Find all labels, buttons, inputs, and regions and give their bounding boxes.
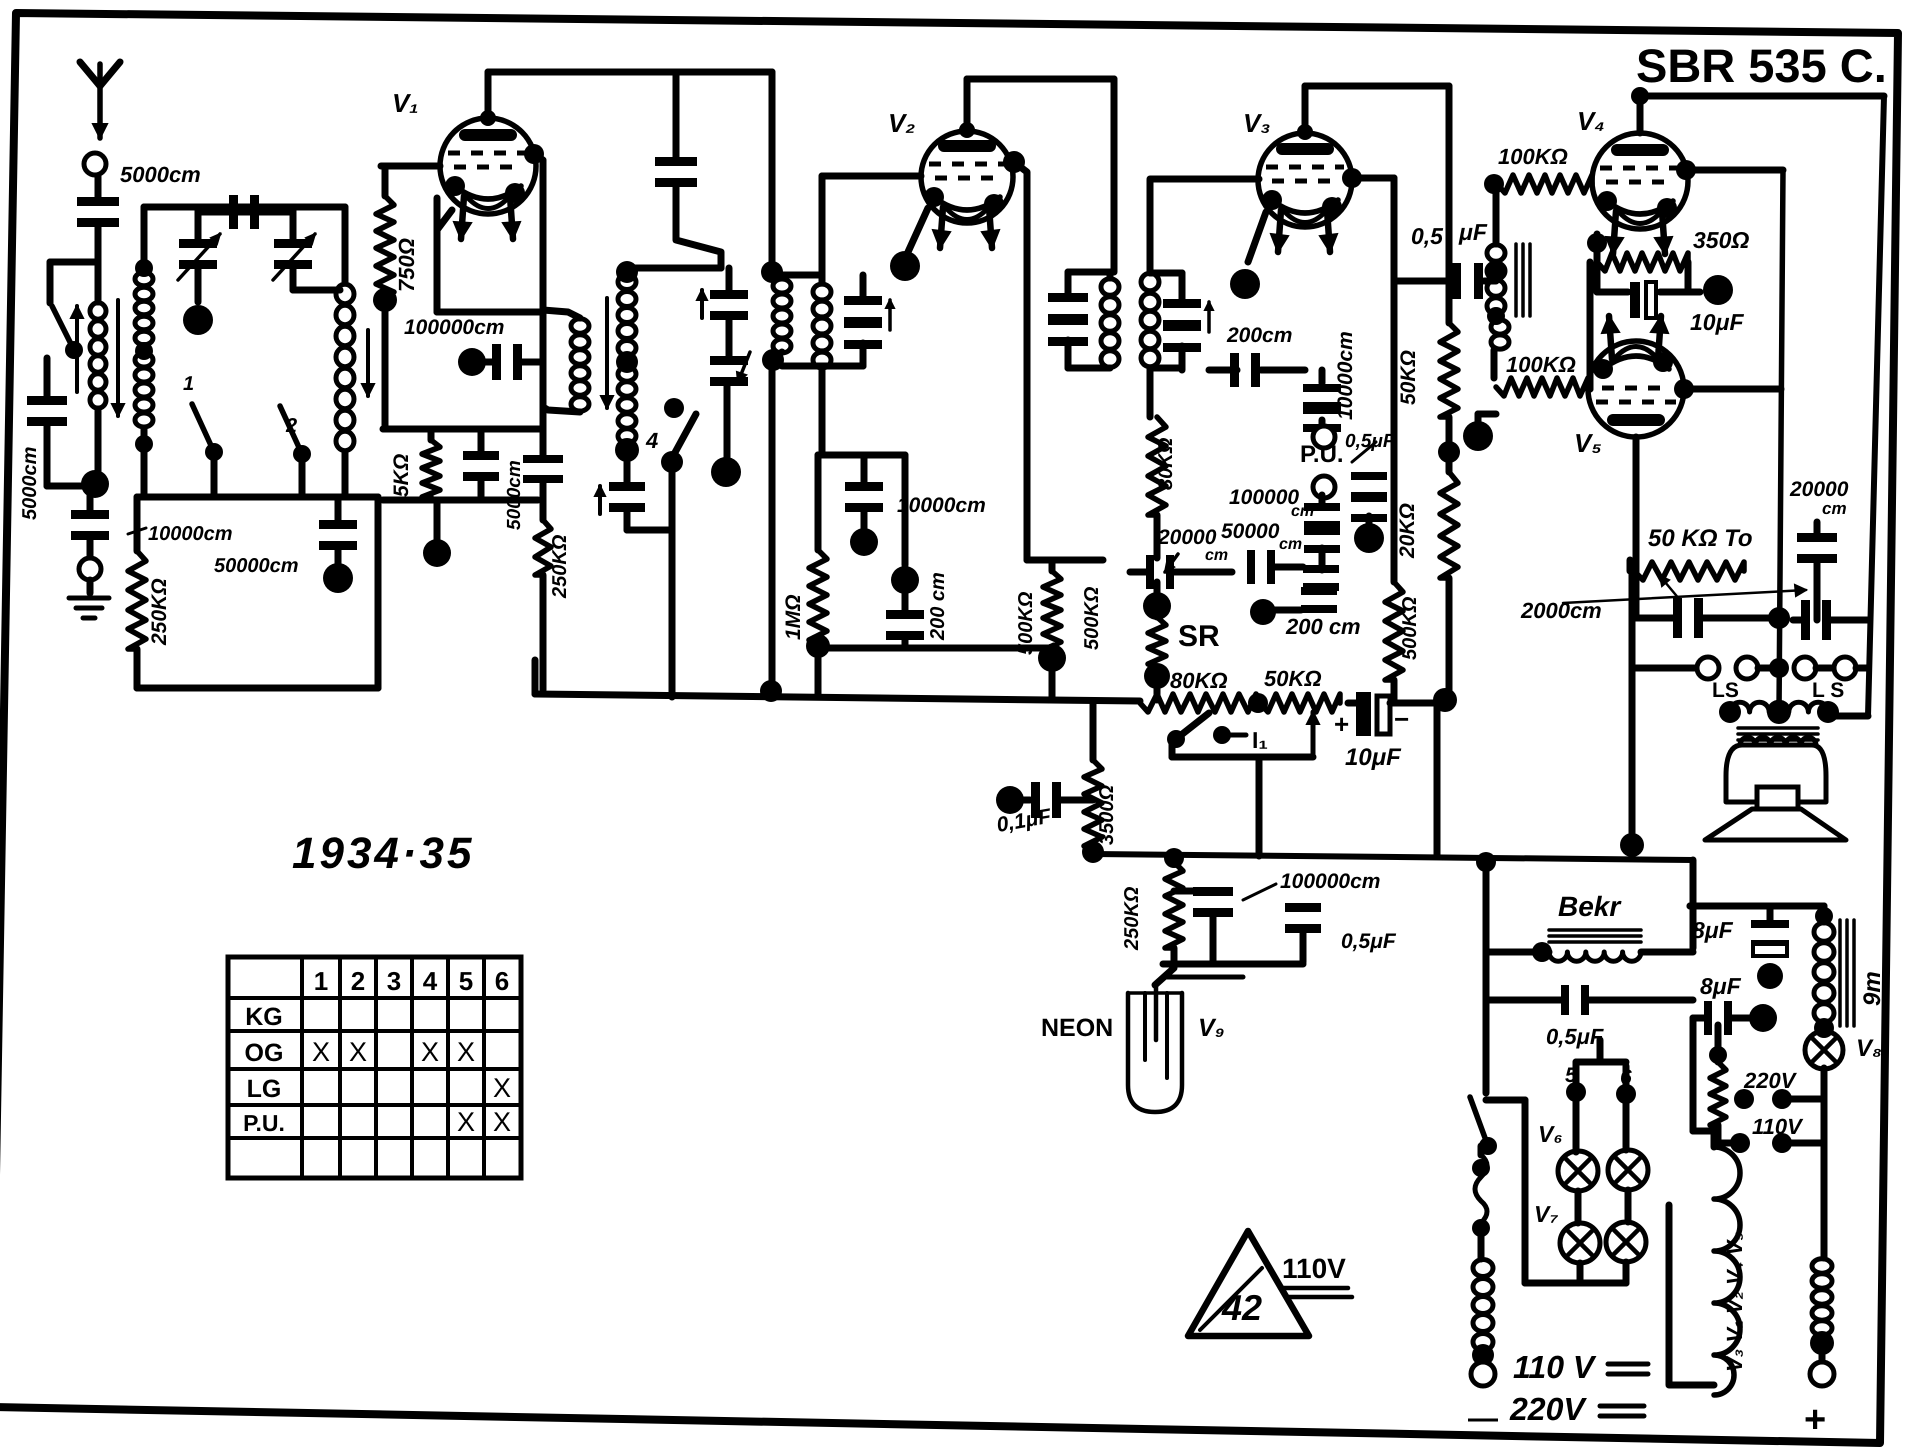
arrow up: [75, 306, 79, 392]
svg-text:0,5μF: 0,5μF: [1345, 431, 1396, 452]
svg-text:200 cm: 200 cm: [927, 572, 949, 641]
capacitor top: [198, 209, 293, 216]
svg-text:3: 3: [387, 966, 401, 996]
wire: [44, 425, 51, 486]
node 220: [1734, 1089, 1754, 1109]
svg-text:200 cm: 200 cm: [1285, 614, 1361, 639]
wire: [1718, 1125, 1740, 1143]
svg-text:5: 5: [459, 966, 473, 996]
svg-text:KG: KG: [245, 1003, 283, 1031]
capacitor 50000cm: [1304, 527, 1340, 535]
svg-text:80KΩ: 80KΩ: [1170, 668, 1228, 693]
wire top rail: [144, 204, 345, 211]
svg-text:0,5μF: 0,5μF: [1341, 930, 1397, 953]
coil L1 upper: [141, 207, 148, 272]
svg-text:1MΩ: 1MΩ: [782, 594, 805, 640]
arrow down: [605, 298, 609, 408]
triangle 42: [1188, 1231, 1309, 1336]
arrow: [888, 300, 892, 330]
node 6: [1616, 1084, 1636, 1104]
resistor 350: [1587, 233, 1607, 253]
svg-text:X: X: [493, 1073, 511, 1103]
wire bottom rail: [137, 494, 378, 501]
tube V2: [921, 131, 1013, 223]
node: [1487, 263, 1505, 281]
wire: [1434, 703, 1441, 855]
svg-text:V₁: V₁: [392, 88, 419, 118]
svg-text:P.U.: P.U.: [1300, 441, 1344, 468]
blob: [458, 348, 486, 376]
blob 0.1uF: [996, 786, 1024, 814]
lamp V7b: [1625, 1190, 1632, 1222]
wire: [1305, 83, 1449, 90]
fuse: [1475, 1155, 1487, 1223]
svg-text:V₂: V₂: [888, 108, 915, 138]
wire V5 plate: [1633, 437, 1640, 617]
node: [1433, 688, 1457, 712]
capacitor 200cm: [902, 455, 909, 565]
speaker coil box: [1726, 745, 1826, 802]
lamp V7a: [1575, 1191, 1582, 1223]
svg-text:V₈: V₈: [1856, 1035, 1882, 1062]
svg-text:V₄: V₄: [1577, 106, 1605, 136]
wire: [95, 176, 102, 200]
svg-text:cm: cm: [1205, 547, 1228, 564]
transformer 9m: [1690, 903, 1824, 910]
wire neon top: [1155, 948, 1174, 985]
tube V5: [1588, 341, 1684, 437]
wire power bus: [1093, 854, 1693, 860]
svg-text:OG: OG: [245, 1039, 284, 1067]
svg-text:100KΩ: 100KΩ: [1498, 144, 1568, 169]
svg-text:X: X: [493, 1107, 511, 1137]
capacitor IFT2 a: [1048, 293, 1088, 302]
svg-text:500KΩ: 500KΩ: [1015, 591, 1037, 655]
svg-text:1: 1: [183, 373, 194, 395]
wire: [1352, 175, 1394, 182]
capacitor pair: [1303, 565, 1339, 573]
svg-text:20000: 20000: [1157, 526, 1217, 549]
capacitor h2: [1247, 550, 1255, 584]
terminal minus: [1480, 1355, 1487, 1362]
resistor 500K a: [1027, 557, 1103, 564]
blob cathode V2: [890, 251, 920, 281]
capacitor 100000cm: [1304, 503, 1340, 511]
svg-text:SBR 535 C.: SBR 535 C.: [1636, 39, 1887, 92]
junction: [1082, 841, 1104, 863]
coil out plus: [1812, 1259, 1832, 1273]
capacitor 20000cm: [1797, 533, 1837, 542]
capacitor SR: [1146, 555, 1154, 589]
blob: [1475, 414, 1482, 424]
svg-text:100000cm: 100000cm: [404, 316, 504, 339]
svg-text:5KΩ: 5KΩ: [390, 454, 413, 497]
coil L1 lower: [135, 353, 153, 367]
wave table: [228, 957, 521, 1178]
wire V4 right: [1676, 160, 1696, 180]
blob: [434, 500, 441, 542]
resistor 80K pot: [1140, 694, 1256, 712]
resistor 50K pot: [1260, 694, 1340, 712]
resistor 250K: [134, 497, 141, 551]
junction blob: [1038, 644, 1066, 672]
wire: [1483, 862, 1490, 1093]
svg-text:10μF: 10μF: [1345, 744, 1402, 771]
trimmer cap A: [726, 268, 733, 291]
capacitor 0.1uF: [1031, 782, 1040, 818]
svg-text:NEON: NEON: [1041, 1014, 1113, 1042]
wire: [290, 268, 297, 290]
resistor 250K v1: [540, 483, 547, 520]
capacitor 0.5uF b: [1285, 903, 1321, 912]
node: [1768, 607, 1790, 629]
svg-text:cm: cm: [1822, 499, 1847, 518]
pointer: [1563, 590, 1806, 603]
svg-text:500KΩ: 500KΩ: [1081, 586, 1103, 650]
switch 1: [192, 404, 214, 452]
capacitor 50000cm: [335, 497, 342, 521]
wire: [902, 637, 909, 648]
wire: [1491, 350, 1498, 378]
junction: [373, 288, 397, 312]
lamp V6a: [1573, 1092, 1580, 1152]
coil osc A: [543, 310, 580, 318]
wire: [1576, 1059, 1626, 1066]
terminal LS2: [1736, 657, 1758, 679]
svg-text:I₁: I₁: [1252, 727, 1268, 753]
svg-text:100KΩ: 100KΩ: [1506, 352, 1576, 377]
svg-text:500KΩ: 500KΩ: [1399, 596, 1421, 660]
svg-text:100000: 100000: [1229, 486, 1299, 509]
capacitor 8uF b: [1704, 1001, 1712, 1035]
svg-text:4: 4: [645, 428, 658, 453]
svg-text:110V: 110V: [1282, 1253, 1346, 1284]
wire: [1446, 578, 1453, 703]
wire V1 grid line: [534, 154, 543, 455]
wire V5 left: [1587, 262, 1594, 389]
neon V9: [1128, 993, 1182, 1112]
capacitor 0.5 ps: [1561, 985, 1569, 1015]
svg-text:L S: L S: [1812, 679, 1844, 702]
svg-text:X: X: [421, 1037, 439, 1067]
tube V4: [1592, 133, 1688, 229]
svg-text:42: 42: [1221, 1287, 1262, 1328]
core: [1738, 726, 1818, 730]
svg-text:V₃: V₃: [1243, 108, 1270, 138]
resistor 5K: [428, 429, 435, 440]
junction blob: [195, 268, 202, 302]
svg-text:220V: 220V: [1509, 1391, 1587, 1427]
svg-text:5000cm: 5000cm: [19, 447, 41, 520]
wire: [1629, 565, 1636, 845]
wire: [1446, 417, 1453, 446]
coil IFT1 pri: [761, 261, 783, 283]
svg-text:2: 2: [285, 415, 297, 437]
wire: [50, 259, 98, 266]
svg-text:3500Ω: 3500Ω: [1096, 785, 1118, 845]
wire: [532, 660, 539, 694]
capacitor 100000 b: [1193, 887, 1233, 896]
svg-text:P.U.: P.U.: [243, 1110, 285, 1136]
svg-text:50000cm: 50000cm: [214, 555, 299, 577]
arrow down: [116, 300, 120, 416]
svg-text:110 V: 110 V: [1513, 1349, 1597, 1385]
node: [1631, 87, 1649, 105]
coil ant primary: [95, 262, 102, 302]
wire: [1690, 1018, 1697, 1131]
arrow wiper: [1311, 712, 1316, 755]
svg-text:V₇: V₇: [1534, 1201, 1558, 1227]
capacitor ant 5000cm: [77, 197, 119, 206]
svg-text:μF: μF: [1458, 219, 1488, 245]
wire: [1486, 1097, 1525, 1104]
coil IFT2 sec: [1141, 273, 1159, 290]
capacitor padder: [624, 450, 631, 482]
svg-text:10μF: 10μF: [1690, 309, 1744, 335]
capacitor 10uF: [1356, 692, 1371, 736]
tube V3: [1258, 133, 1352, 227]
wire: [1154, 582, 1161, 600]
svg-text:V₅: V₅: [1574, 428, 1602, 458]
terminal antenna: [84, 153, 106, 175]
svg-text:250KΩ: 250KΩ: [1121, 886, 1143, 951]
capacitor IFT2 b: [1163, 299, 1201, 308]
node I1: [1213, 726, 1231, 744]
wire: [1711, 1131, 1718, 1147]
svg-text:250KΩ: 250KΩ: [549, 534, 571, 599]
capacitor 2000 a: [1673, 598, 1682, 638]
wire: [1154, 515, 1161, 558]
trimmer cap 2: [290, 207, 297, 240]
resistor 500K c: [1391, 281, 1398, 582]
switch I1: [1176, 713, 1209, 739]
blob cathode V3: [1230, 269, 1260, 299]
resistor 750ohm: [381, 163, 440, 170]
svg-text:250KΩ: 250KΩ: [148, 578, 171, 646]
wire: [44, 358, 51, 397]
coil IFT1 sec: [813, 284, 831, 300]
wire top link: [627, 265, 721, 272]
wire: [1486, 949, 1549, 956]
svg-text:5000cm: 5000cm: [504, 460, 525, 530]
wire grid V2: [822, 173, 921, 180]
wire: [1832, 713, 1868, 720]
capacitor 5000cm left: [27, 396, 67, 405]
node tap: [135, 259, 153, 277]
trimmer cap 1: [195, 207, 202, 240]
terminal LS4: [1834, 657, 1856, 679]
svg-text:+: +: [1804, 1399, 1826, 1441]
wire: [967, 76, 1114, 83]
wire bracket: [1669, 1205, 1714, 1385]
output transformer primary: [1719, 701, 1741, 723]
wire: [673, 72, 680, 158]
node grid cap: [524, 144, 544, 164]
svg-text:10000cm: 10000cm: [148, 523, 233, 545]
pot 50K: [1627, 560, 1634, 571]
junction blob: [335, 549, 342, 566]
wire: [815, 646, 822, 697]
svg-text:5000cm: 5000cm: [120, 162, 201, 187]
blob: [861, 511, 868, 528]
coil osc B: [616, 261, 638, 283]
svg-text:Bekr: Bekr: [1558, 891, 1622, 922]
capacitor 5000cm v1: [523, 455, 563, 463]
wire: [1150, 270, 1182, 277]
svg-text:X: X: [457, 1037, 475, 1067]
wire inner vert: [1779, 170, 1783, 712]
terminal PU2: [1313, 476, 1335, 498]
wire: [1179, 352, 1186, 370]
wire top bus: [488, 69, 772, 76]
svg-text:X: X: [349, 1037, 367, 1067]
svg-text:LS: LS: [1712, 679, 1739, 702]
speaker: [1757, 787, 1798, 809]
svg-text:V₉: V₉: [1198, 1014, 1225, 1042]
svg-text:9m: 9m: [1859, 971, 1886, 1006]
junction: [806, 634, 830, 658]
lamp V8: [1814, 1018, 1834, 1038]
resistor 80K: [1147, 368, 1154, 417]
node: [1810, 1331, 1834, 1355]
svg-text:20000: 20000: [1789, 478, 1849, 501]
svg-text:cm: cm: [1279, 536, 1302, 553]
wire B+ top: [1640, 93, 1884, 100]
node: [1248, 693, 1268, 713]
svg-text:X: X: [457, 1107, 475, 1137]
svg-text:100000cm: 100000cm: [1280, 870, 1380, 893]
blob: [1366, 516, 1373, 524]
capacitor: [478, 429, 485, 452]
choke Bekr: [1549, 928, 1641, 932]
resistor 20K: [1446, 452, 1453, 472]
wire: [1690, 860, 1697, 948]
wire plate V4: [1637, 96, 1644, 133]
svg-text:LG: LG: [247, 1075, 282, 1103]
wire plate V3: [1302, 86, 1309, 132]
svg-text:220V: 220V: [1743, 1068, 1798, 1093]
wire cathode box: [434, 198, 441, 312]
svg-text:2000cm: 2000cm: [1520, 598, 1602, 623]
switch 2: [280, 406, 302, 454]
svg-text:X: X: [312, 1037, 330, 1067]
coil mains: [1478, 1223, 1485, 1259]
capacitor 10000cm: [1303, 384, 1341, 392]
switch mains: [1470, 1097, 1488, 1146]
node: [135, 435, 153, 453]
svg-text:1934·35: 1934·35: [292, 829, 474, 878]
svg-text:6: 6: [495, 966, 509, 996]
tube V1: [440, 118, 536, 214]
svg-text:50KΩ: 50KΩ: [1397, 350, 1420, 405]
wire right bus: [1868, 96, 1884, 716]
wire 5K box: [383, 426, 543, 433]
wire: [1577, 1263, 1584, 1283]
wire bottom: [137, 685, 378, 692]
capacitor earth: [71, 510, 109, 519]
terminal LS1: [1632, 665, 1697, 672]
svg-text:−: −: [1394, 704, 1409, 734]
terminal PU1: [1319, 420, 1326, 427]
resistor 3500: [1090, 703, 1097, 760]
svg-text:80KΩ: 80KΩ: [1155, 437, 1177, 490]
resistor 250K b: [1165, 862, 1183, 948]
ground: [87, 580, 94, 593]
svg-text:2: 2: [351, 966, 365, 996]
node: [1472, 1344, 1494, 1366]
core: [1514, 244, 1518, 316]
capacitor IFT1: [844, 296, 882, 305]
svg-text:750Ω: 750Ω: [394, 238, 419, 292]
blob trimmer: [724, 385, 731, 460]
terminal LS3: [1794, 657, 1816, 679]
switch 4: [664, 398, 684, 418]
svg-text:V₃ V₁ V₂ V₄ V₅: V₃ V₁ V₂ V₄ V₅: [1722, 1232, 1747, 1372]
wire: [1068, 269, 1110, 276]
wire: [383, 497, 538, 504]
svg-text:8μF: 8μF: [1700, 973, 1742, 999]
arrow down L2: [366, 330, 370, 396]
resistor 50K: [1440, 323, 1458, 417]
capacitor 2000 b: [1801, 600, 1810, 640]
arrow: [1207, 302, 1211, 332]
wire: [819, 369, 826, 455]
terminal plus: [1819, 1343, 1826, 1362]
switch ant: [52, 306, 74, 350]
capacitor 8uF a: [1690, 903, 1770, 910]
junction: [81, 470, 109, 498]
capacitor 10uF v4: [1685, 262, 1692, 292]
svg-text:0,5: 0,5: [1411, 223, 1444, 249]
svg-text:4: 4: [423, 966, 438, 996]
wire mid bus: [535, 694, 1140, 701]
wire V5 right: [1674, 379, 1694, 399]
wire: [1446, 86, 1453, 323]
coil IFT2 pri: [1101, 279, 1119, 296]
coil L2: [342, 207, 349, 283]
blob: [1250, 599, 1276, 625]
wire plate V1: [485, 72, 492, 118]
wire: [782, 272, 822, 279]
svg-text:50KΩ: 50KΩ: [1264, 666, 1322, 691]
antenna: [80, 62, 100, 86]
svg-text:10000cm: 10000cm: [897, 494, 986, 517]
wire plate V2: [964, 79, 971, 130]
resistor 100K a: [1484, 174, 1504, 194]
capacitor: [655, 157, 697, 166]
svg-text:50000: 50000: [1221, 520, 1280, 543]
wire: [1172, 754, 1313, 761]
svg-text:—: —: [1468, 1402, 1498, 1435]
terminal earth: [87, 538, 94, 558]
svg-text:SR: SR: [1178, 620, 1220, 653]
resistor 100K b: [1496, 378, 1588, 396]
resistor 1M: [815, 455, 822, 550]
svg-text:350Ω: 350Ω: [1693, 227, 1749, 253]
wire V3 grid: [1147, 180, 1154, 273]
resistor 500K b: [1154, 606, 1161, 617]
svg-text:1: 1: [314, 966, 328, 996]
capacitor grid: [492, 344, 501, 380]
node 5: [1566, 1082, 1586, 1102]
node 110: [1730, 1133, 1750, 1153]
svg-text:8μF: 8μF: [1692, 917, 1734, 943]
wire: [1319, 495, 1326, 507]
wire: [1821, 1099, 1828, 1258]
svg-text:200cm: 200cm: [1226, 324, 1292, 347]
winding heater: [1714, 1147, 1740, 1395]
capacitor 10000cm: [861, 455, 868, 483]
